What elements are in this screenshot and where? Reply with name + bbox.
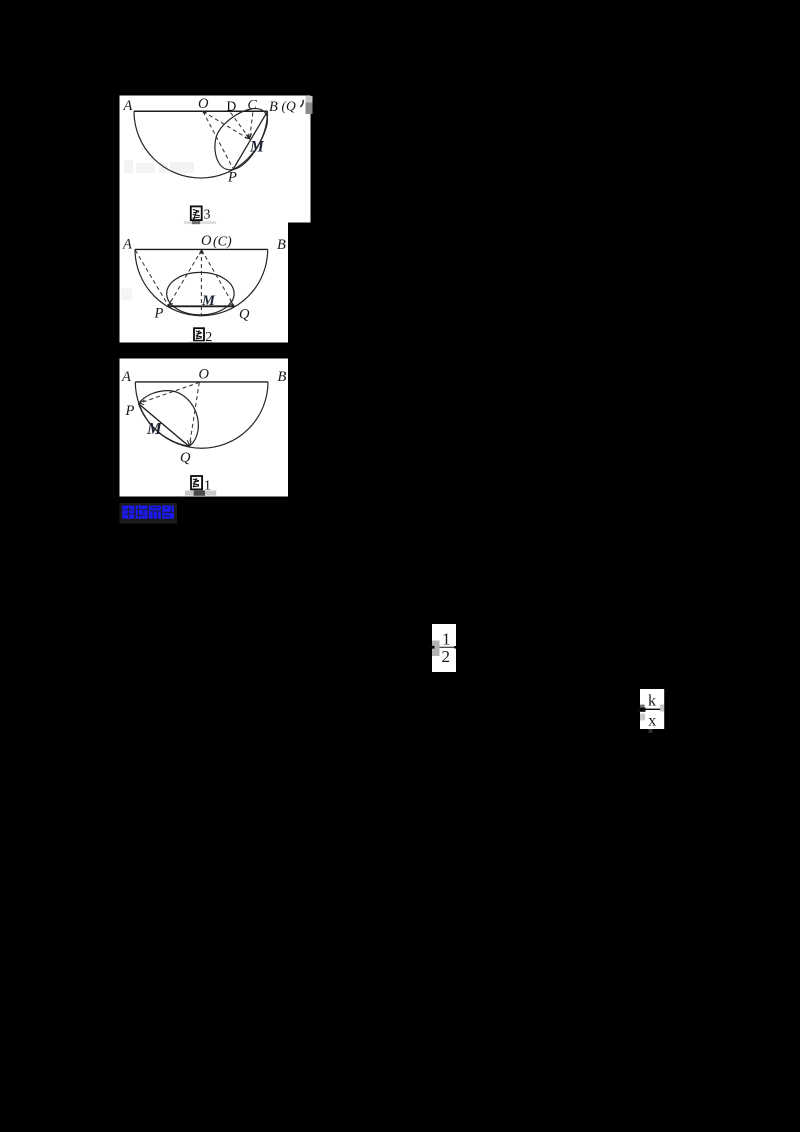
- svg-text:A: A: [121, 369, 131, 385]
- svg-text:A: A: [122, 237, 132, 253]
- fig2 dashed vertical OM: [200, 250, 202, 315]
- formula k-over-x caret below: [649, 729, 653, 733]
- svg-text:M: M: [201, 293, 216, 309]
- svg-text:O: O: [199, 367, 210, 383]
- fig2 arrow at O: [200, 250, 204, 254]
- fig3 segment BP: [233, 111, 268, 169]
- formula one-half left tick: [430, 646, 435, 649]
- ghost text smudge panel 3: [124, 160, 194, 173]
- svg-text:2: 2: [205, 330, 212, 345]
- fig2 dashed OP: [169, 250, 202, 306]
- formula k-over-x background: [640, 689, 664, 729]
- svg-text:B: B: [269, 99, 278, 115]
- formula k-over-x gray marks: [640, 705, 645, 709]
- fig1 dashed OP: [140, 382, 200, 403]
- svg-text:x: x: [648, 713, 656, 730]
- fig2 caption box glyph: [194, 328, 204, 341]
- fig3 dashed OM: [203, 112, 250, 140]
- svg-text:B: B: [277, 237, 286, 253]
- fig3 semicircle AB: [134, 111, 268, 178]
- svg-text:3: 3: [204, 208, 211, 223]
- blue heading glyph 1: [122, 506, 134, 519]
- formula k-over-x equals blob: [638, 708, 646, 712]
- svg-text:(Q: (Q: [282, 99, 296, 114]
- svg-text:k: k: [648, 693, 656, 710]
- blue heading background: [120, 503, 178, 524]
- svg-text:C: C: [248, 98, 258, 113]
- gray handle top-right of panel 3: [306, 96, 313, 103]
- fig3 small circle through B C P: [215, 109, 268, 170]
- svg-text:Q: Q: [180, 450, 191, 466]
- fig1 caption box glyph: [191, 476, 202, 489]
- fig1 caption shadow: [185, 490, 216, 495]
- svg-text:P: P: [125, 403, 135, 419]
- panel figure 1 background: [120, 359, 289, 497]
- fig2 semicircle AB: [135, 249, 268, 315]
- svg-text:D: D: [227, 98, 237, 113]
- fig2 line AB: [135, 248, 268, 250]
- fig1 arrow at Q: [187, 440, 191, 445]
- blue heading glyph 3: [149, 506, 161, 519]
- ghost smudge fig2 left: [121, 288, 132, 300]
- blue heading glyph 2: [136, 506, 148, 519]
- fig3 caption box glyph: [191, 206, 202, 221]
- fig2 arrow at Q: [229, 300, 233, 305]
- fig3 arrow at O: [203, 112, 206, 115]
- fig1 chord PQ: [139, 404, 190, 447]
- fig2 caption shadow: [189, 341, 213, 342]
- formula one-half background: [432, 624, 456, 672]
- fig2 dashed OQ: [202, 250, 234, 306]
- formula one-half bar: [440, 646, 456, 648]
- svg-text:P: P: [227, 170, 237, 186]
- svg-text:M: M: [146, 419, 163, 438]
- fig1 arrow at P: [140, 400, 145, 405]
- fig2 arrow at P: [168, 300, 173, 305]
- fig2 inner ellipse: [167, 272, 234, 314]
- formula k-over-x bar: [645, 708, 661, 710]
- fig3 line AB: [134, 110, 268, 112]
- svg-text:O: O: [198, 96, 209, 112]
- fig2 chord PQ: [168, 305, 234, 307]
- formula one-half right tick: [454, 646, 457, 649]
- fig3 arrows at M: [245, 134, 252, 139]
- panel figures 3 and 2 background: [120, 96, 311, 343]
- svg-text:Q: Q: [239, 307, 250, 323]
- blue heading glyph 4: [162, 506, 174, 519]
- svg-text:B: B: [278, 369, 287, 385]
- fig1 semicircle AB: [135, 382, 268, 448]
- fig3 caption shadow: [184, 221, 217, 224]
- fig3 dashed DM: [231, 113, 249, 138]
- fig2 dashed AP: [135, 250, 168, 305]
- svg-text:1: 1: [442, 630, 451, 649]
- fig3 dashed OP: [203, 112, 233, 169]
- svg-text:M: M: [249, 139, 265, 156]
- fig1 line AB: [135, 381, 268, 383]
- formula one-half gray selection: [432, 641, 440, 657]
- svg-text:(C): (C): [213, 235, 232, 250]
- svg-text:A: A: [123, 98, 133, 114]
- svg-text:2: 2: [442, 647, 451, 666]
- svg-text:O: O: [201, 233, 212, 249]
- fig1 dashed OQ: [190, 382, 200, 445]
- fig1 small circle through P Q: [139, 391, 199, 447]
- svg-text:P: P: [154, 306, 164, 322]
- fig3 dashed CM: [250, 113, 253, 138]
